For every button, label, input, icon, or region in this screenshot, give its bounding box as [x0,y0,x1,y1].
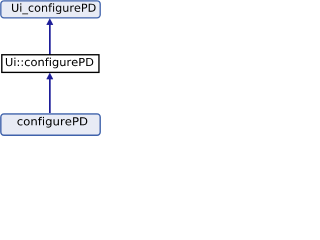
label Ui::configurePD [6,58,93,69]
label Ui_configurePD [12,3,96,14]
label configurePD [17,117,87,128]
wire edge middle-to-top [49,24,51,55]
node configurePD (derived class, rounded) [1,114,100,135]
wire edge bottom-to-middle [49,79,51,113]
arrowhead to Ui_configurePD [47,19,53,25]
arrowhead to Ui::configurePD [47,73,53,79]
node Ui_configurePD (base class, rounded) [1,1,100,18]
node Ui::configurePD (current class, square) [2,55,99,73]
inheritance diagram [0,0,101,136]
